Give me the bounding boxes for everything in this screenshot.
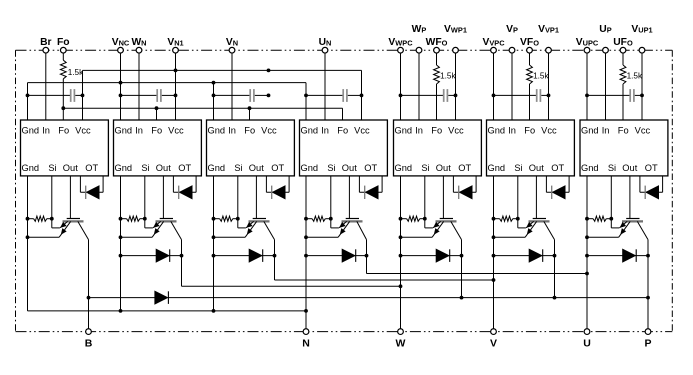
svg-text:Gnd: Gnd: [22, 125, 40, 135]
svg-text:Gnd: Gnd: [488, 163, 506, 173]
svg-text:Gnd: Gnd: [488, 125, 506, 135]
svg-text:Vcc: Vcc: [168, 125, 184, 135]
svg-text:Gnd: Gnd: [115, 125, 133, 135]
svg-text:Fo: Fo: [431, 125, 442, 135]
svg-text:Gnd: Gnd: [581, 125, 599, 135]
svg-text:P: P: [644, 337, 651, 349]
svg-text:1.5k: 1.5k: [440, 72, 456, 81]
svg-text:Fo: Fo: [337, 125, 348, 135]
svg-text:Gnd: Gnd: [581, 163, 599, 173]
svg-text:Si: Si: [608, 163, 616, 173]
svg-text:Si: Si: [421, 163, 429, 173]
svg-text:1.5k: 1.5k: [533, 72, 549, 81]
svg-text:Gnd: Gnd: [208, 163, 226, 173]
svg-text:Si: Si: [327, 163, 335, 173]
svg-text:Fo: Fo: [524, 125, 535, 135]
svg-text:U: U: [583, 337, 591, 349]
svg-text:VP: VP: [506, 24, 518, 35]
svg-text:Out: Out: [622, 163, 637, 173]
svg-text:Fo: Fo: [244, 125, 255, 135]
svg-text:Gnd: Gnd: [208, 125, 226, 135]
svg-text:Vcc: Vcc: [541, 125, 557, 135]
svg-text:UN: UN: [319, 37, 332, 48]
svg-text:In: In: [135, 125, 143, 135]
svg-text:VNC: VNC: [112, 37, 130, 48]
svg-text:Si: Si: [234, 163, 242, 173]
svg-text:Si: Si: [514, 163, 522, 173]
svg-text:Out: Out: [529, 163, 544, 173]
svg-text:W: W: [396, 337, 406, 349]
svg-text:WFO: WFO: [426, 37, 448, 48]
svg-text:VFO: VFO: [520, 37, 539, 48]
svg-text:Gnd: Gnd: [115, 163, 133, 173]
svg-text:Vcc: Vcc: [261, 125, 277, 135]
svg-text:OT: OT: [458, 163, 471, 173]
svg-text:VVPC: VVPC: [482, 37, 505, 48]
svg-text:OT: OT: [85, 163, 98, 173]
svg-text:Gnd: Gnd: [395, 125, 413, 135]
svg-text:In: In: [508, 125, 516, 135]
svg-text:VUPC: VUPC: [576, 37, 599, 48]
svg-text:Out: Out: [342, 163, 357, 173]
svg-text:Out: Out: [249, 163, 264, 173]
svg-text:OT: OT: [364, 163, 377, 173]
svg-text:Vcc: Vcc: [354, 125, 370, 135]
svg-text:In: In: [321, 125, 329, 135]
svg-text:OT: OT: [178, 163, 191, 173]
svg-text:Vcc: Vcc: [448, 125, 464, 135]
svg-text:Vcc: Vcc: [635, 125, 651, 135]
svg-text:Gnd: Gnd: [301, 125, 319, 135]
svg-text:VUP1: VUP1: [631, 24, 652, 35]
svg-text:WN: WN: [131, 37, 146, 48]
svg-text:V: V: [490, 337, 497, 349]
svg-text:WP: WP: [412, 24, 427, 35]
svg-text:Gnd: Gnd: [395, 163, 413, 173]
svg-text:In: In: [602, 125, 610, 135]
svg-text:UP: UP: [599, 24, 611, 35]
svg-text:Fo: Fo: [618, 125, 629, 135]
svg-text:VN1: VN1: [167, 37, 183, 48]
svg-text:Out: Out: [63, 163, 78, 173]
svg-text:Si: Si: [141, 163, 149, 173]
svg-text:Out: Out: [156, 163, 171, 173]
svg-text:OT: OT: [271, 163, 284, 173]
svg-text:Si: Si: [48, 163, 56, 173]
svg-text:In: In: [42, 125, 50, 135]
svg-text:1.5k: 1.5k: [627, 72, 643, 81]
svg-text:Br: Br: [40, 37, 51, 48]
svg-text:Fo: Fo: [58, 125, 69, 135]
svg-text:Vcc: Vcc: [75, 125, 91, 135]
svg-text:Gnd: Gnd: [22, 163, 40, 173]
svg-text:OT: OT: [645, 163, 658, 173]
svg-text:Out: Out: [436, 163, 451, 173]
svg-text:In: In: [228, 125, 236, 135]
svg-text:UFO: UFO: [613, 37, 633, 48]
svg-text:VN: VN: [226, 37, 238, 48]
svg-text:In: In: [415, 125, 423, 135]
svg-text:OT: OT: [551, 163, 564, 173]
svg-text:B: B: [85, 337, 93, 349]
svg-text:VWP1: VWP1: [444, 24, 467, 35]
svg-text:Fo: Fo: [57, 37, 70, 48]
svg-text:N: N: [302, 337, 310, 349]
svg-text:Gnd: Gnd: [301, 163, 319, 173]
svg-text:VWPC: VWPC: [388, 37, 413, 48]
svg-text:VVP1: VVP1: [538, 24, 559, 35]
svg-text:1.5k: 1.5k: [68, 68, 84, 77]
svg-text:Fo: Fo: [151, 125, 162, 135]
